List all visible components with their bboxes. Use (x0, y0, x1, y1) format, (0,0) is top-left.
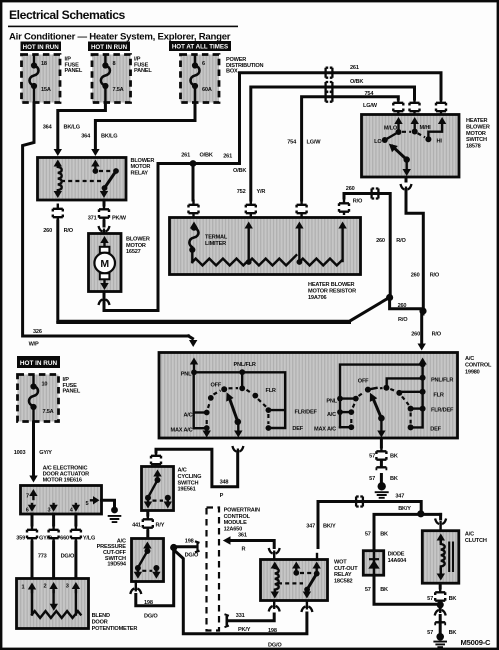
svg-text:M5009-C: M5009-C (461, 638, 492, 647)
svg-text:260: 260 (43, 228, 52, 234)
blower motor 16527 box (89, 234, 122, 292)
svg-text:PNL/FLR: PNL/FLR (234, 362, 256, 368)
node 57 BK splice (437, 601, 444, 608)
fuse panel 3 (power distribution box, fuse 6 60A) (181, 55, 220, 103)
resistor tap arrow pin2 (247, 227, 249, 262)
svg-text:MOTOR RESISTOR: MOTOR RESISTOR (308, 288, 356, 294)
svg-text:R/O: R/O (396, 238, 406, 244)
svg-text:260: 260 (411, 273, 420, 279)
svg-text:PNL/FLR: PNL/FLR (431, 377, 453, 383)
svg-text:M/LO: M/LO (384, 126, 398, 132)
svg-text:A/C: A/C (178, 468, 187, 474)
blower motor relay box (38, 158, 127, 201)
svg-text:DG/O: DG/O (185, 552, 199, 558)
connector horns below motor (99, 298, 110, 305)
inline connector at resistor pin 4 (339, 198, 349, 215)
svg-text:2: 2 (44, 584, 47, 590)
wire node to diode branch (365, 514, 441, 548)
svg-text:1003: 1003 (14, 450, 26, 456)
relay coil (58, 164, 62, 194)
svg-text:19A706: 19A706 (308, 295, 326, 301)
svg-text:LG/W: LG/W (363, 103, 378, 109)
contact PNL right (337, 396, 343, 402)
inline connector 441 (143, 514, 153, 531)
svg-text:16527: 16527 (126, 249, 141, 255)
svg-text:LG/W: LG/W (307, 139, 322, 145)
dashed actuation link coil to contact (61, 180, 101, 182)
svg-text:773: 773 (38, 553, 47, 559)
svg-text:R/O: R/O (432, 332, 442, 338)
wire 348 loop to cycling switch (156, 449, 238, 499)
svg-text:SWITCH: SWITCH (178, 480, 199, 486)
svg-text:BLOWER: BLOWER (466, 124, 490, 130)
heater blower motor switch 18578 box (362, 115, 460, 178)
svg-text:198: 198 (185, 539, 194, 545)
svg-text:PANEL: PANEL (63, 389, 81, 395)
svg-text:O/BK: O/BK (200, 153, 213, 159)
svg-text:261: 261 (223, 154, 232, 160)
fuse F10 7.5A (29, 377, 54, 423)
clutch coil (441, 542, 445, 570)
max a/c output arrow (205, 428, 207, 431)
svg-text:FLR/DEF: FLR/DEF (431, 408, 454, 414)
svg-text:RELAY: RELAY (131, 171, 149, 177)
wire switch output to node B (406, 178, 440, 310)
motor armature M (94, 253, 115, 274)
svg-text:MOTOR 19E616: MOTOR 19E616 (43, 478, 82, 484)
contact A/C stub (194, 411, 207, 413)
svg-text:PK/W: PK/W (112, 216, 127, 222)
svg-text:260: 260 (346, 186, 355, 192)
svg-text:347: 347 (306, 523, 315, 529)
svg-text:BLEND: BLEND (92, 613, 110, 619)
wiper output to bottom (406, 160, 408, 169)
svg-text:660: 660 (60, 535, 69, 541)
svg-text:W/P: W/P (29, 341, 39, 347)
svg-text:19980: 19980 (465, 369, 480, 375)
svg-text:FLR/DEF: FLR/DEF (295, 410, 318, 416)
svg-text:DIODE: DIODE (388, 551, 405, 557)
svg-text:R/Y: R/Y (156, 523, 165, 529)
svg-text:LO: LO (374, 139, 382, 145)
svg-text:7.5A: 7.5A (43, 409, 54, 415)
thermal limiter (189, 228, 198, 248)
svg-text:O/BK: O/BK (350, 79, 363, 85)
wire clutch to ground node (427, 584, 456, 604)
svg-text:OFF: OFF (358, 379, 369, 385)
svg-text:57: 57 (369, 453, 375, 459)
wire 359 GY/R pin6 to potentiometer (16, 514, 52, 577)
svg-text:HOT AT ALL TIMES: HOT AT ALL TIMES (172, 44, 228, 51)
left wiper output (237, 422, 239, 431)
wire 331 PK/Y PCM to WOT relay coil (225, 601, 275, 634)
wot relay contact pin arrow (295, 568, 297, 573)
inline connector to switch pin mid feed (410, 98, 420, 115)
connector pair on row 2 (321, 82, 337, 92)
hot-in-run label bottom (17, 356, 60, 368)
inline connector below clutch (435, 587, 445, 604)
svg-text:HEATER BLOWER: HEATER BLOWER (308, 282, 355, 288)
svg-text:MOTOR: MOTOR (131, 164, 151, 170)
potentiometer pin 1 (31, 588, 33, 592)
connector horns below WOT relay left pin (269, 605, 280, 612)
svg-text:OFF: OFF (211, 383, 222, 389)
wot relay moving contact (307, 574, 317, 590)
potentiometer pin 2 (52, 588, 54, 592)
svg-text:260: 260 (411, 332, 420, 338)
contact MAX A/C right (340, 426, 351, 428)
wire 347 BK/Y WOT relay to clutch node (306, 494, 421, 560)
powertrain control module 12A650 dashed box (207, 508, 220, 631)
svg-text:MAX A/C: MAX A/C (170, 428, 192, 434)
svg-text:BLOWER: BLOWER (131, 158, 155, 164)
svg-text:6: 6 (202, 61, 205, 67)
svg-text:O/BK: O/BK (233, 168, 246, 174)
svg-text:BK: BK (449, 596, 457, 602)
dashed link contacts (300, 572, 313, 574)
hot-in-run label 1 (21, 42, 62, 52)
svg-text:PK/Y: PK/Y (238, 627, 251, 633)
wire 198 DG/O loop splice to pressure switch (136, 550, 174, 620)
a/c pressure cut-off switch 19D594 box (132, 539, 164, 582)
right section feed dot (420, 361, 426, 367)
pressure switch pin arrow (146, 547, 148, 551)
switch pin arrow M/HI (414, 123, 416, 131)
svg-text:261: 261 (350, 65, 359, 71)
contact PNL/FLR on rail (239, 369, 245, 375)
potentiometer element (32, 591, 81, 618)
wire 260 R/O resistor pin4 to main node (344, 186, 406, 295)
svg-text:A/C: A/C (183, 413, 192, 419)
svg-text:19D594: 19D594 (107, 562, 126, 568)
svg-text:DG/O: DG/O (61, 553, 75, 559)
wire 752 Y/R row (row 2) (237, 87, 415, 200)
motor pin arrow bottom (103, 280, 105, 283)
svg-text:6: 6 (26, 507, 29, 513)
svg-text:57: 57 (365, 532, 371, 538)
ground on 347 run (375, 482, 389, 498)
actuator pin 7 (32, 494, 34, 499)
right wiper output (380, 418, 382, 430)
contact LO (382, 137, 388, 143)
svg-text:CONTROL: CONTROL (224, 514, 251, 520)
contact FLR/DEF right (420, 406, 426, 412)
motor brush bottom (100, 273, 110, 279)
connector horns above WOT relay coil (269, 548, 280, 555)
svg-text:CLUTCH: CLUTCH (465, 538, 487, 544)
svg-text:P: P (220, 493, 224, 499)
dashed link pin to pivot (99, 170, 112, 172)
svg-text:M/HI: M/HI (420, 125, 432, 131)
svg-text:364: 364 (81, 134, 91, 140)
wire 260 R/O relay coil return trunk (43, 221, 389, 323)
left section bus PNL vertical (192, 372, 194, 428)
node B 260 splice (419, 307, 426, 314)
connector pair on row 3 (321, 92, 337, 102)
inline connector at resistor pin 1 (189, 200, 199, 217)
arc contact dot left (208, 395, 214, 401)
svg-text:MAX A/C: MAX A/C (314, 426, 336, 432)
svg-text:BK: BK (449, 630, 457, 636)
ground at actuator (108, 507, 122, 522)
svg-text:GY/Y: GY/Y (39, 450, 52, 456)
switch pin arrow HI feed (428, 123, 442, 137)
connector pair on 261 row (321, 68, 337, 78)
contact DEF (266, 425, 272, 431)
svg-text:8: 8 (113, 61, 116, 67)
motor brush top (100, 247, 110, 253)
svg-text:CUT-OUT: CUT-OUT (334, 566, 358, 572)
svg-text:BK/Y: BK/Y (398, 506, 411, 512)
svg-text:60A: 60A (202, 87, 212, 93)
contact FLR right (420, 389, 426, 395)
right wiper (378, 415, 385, 422)
svg-text:18: 18 (41, 61, 47, 67)
svg-text:MOTOR: MOTOR (126, 243, 146, 249)
inline connector to switch pin HI feed (436, 98, 446, 115)
inline connector 57 BK (376, 446, 386, 463)
svg-text:PNL: PNL (181, 372, 192, 378)
svg-text:BK/LG: BK/LG (64, 124, 80, 130)
svg-text:FLR: FLR (433, 392, 443, 398)
svg-text:R: R (242, 546, 246, 552)
svg-text:PANEL: PANEL (65, 68, 83, 74)
actuator pin 6 (31, 504, 33, 507)
svg-text:RELAY: RELAY (334, 572, 352, 578)
svg-text:Y/R: Y/R (257, 189, 266, 195)
actuator pin 3 (52, 504, 54, 507)
contact OFF right (365, 387, 371, 393)
a/c cycling switch 19E561 box (142, 467, 174, 511)
connector horns below splice (435, 609, 446, 616)
svg-text:R/O: R/O (430, 273, 440, 279)
svg-text:14A604: 14A604 (388, 558, 407, 564)
svg-text:CONTROL: CONTROL (465, 363, 492, 369)
svg-text:57: 57 (427, 630, 433, 636)
svg-text:1: 1 (22, 585, 25, 591)
wire 198 DG/O stub terminal (174, 539, 200, 559)
svg-text:DOOR: DOOR (92, 620, 108, 626)
svg-text:HOT IN RUN: HOT IN RUN (23, 44, 60, 51)
svg-text:A/C: A/C (327, 412, 336, 418)
potentiometer pin 3 (75, 588, 77, 592)
svg-text:HOT IN RUN: HOT IN RUN (20, 360, 58, 367)
contact PNL/FLR right (420, 375, 426, 381)
svg-text:7: 7 (26, 493, 29, 499)
svg-text:18578: 18578 (466, 144, 481, 150)
svg-text:10: 10 (42, 381, 48, 387)
svg-text:TERMAL: TERMAL (205, 235, 228, 241)
svg-text:260: 260 (398, 303, 407, 309)
wire 326 W/P fuse1 to A/C control (23, 103, 198, 347)
dashed link M/LO to M/HI (402, 131, 411, 133)
wire 361 R PCM to WOT relay (223, 533, 274, 560)
link M/LO to LO (385, 132, 399, 140)
svg-text:18C582: 18C582 (334, 579, 352, 585)
dashed link (142, 570, 152, 572)
contact MAX A/C stub (194, 427, 207, 429)
resistor element (192, 250, 341, 266)
fuse F18 15A (30, 57, 51, 104)
cycling switch pin arrow top (156, 475, 158, 480)
svg-text:BLOWER: BLOWER (126, 236, 150, 242)
wire 660 Y/LG pin4 to potentiometer (60, 514, 95, 577)
svg-text:BK: BK (380, 532, 388, 538)
relay contact output arrow (103, 188, 105, 192)
fuse panel 2 (I/P fuse panel, fuse 8 7.5A) (92, 55, 131, 103)
wire 198 DG/O splice to WOT relay (175, 551, 307, 649)
left section top rail (194, 372, 285, 428)
inline connector at resistor pin 3 (297, 200, 307, 217)
cycling switch output arrows (147, 498, 149, 502)
dashed link between outputs (153, 500, 164, 502)
fuse panel 1 (I/P fuse panel, fuse 18 15A) (22, 55, 61, 103)
svg-text:SWITCH: SWITCH (466, 137, 487, 143)
svg-text:260: 260 (376, 238, 385, 244)
motor pin arrow top (103, 242, 105, 246)
svg-text:7.5A: 7.5A (113, 87, 124, 93)
svg-text:371: 371 (88, 216, 97, 222)
hot-in-run label 2 (88, 42, 130, 52)
connector horns below pressure switch (130, 587, 141, 594)
inline connector 359 (27, 525, 37, 542)
svg-text:BOX: BOX (226, 69, 238, 75)
wire 371 PK/W relay to blower motor (88, 200, 127, 226)
svg-text:Y/LG: Y/LG (83, 535, 95, 541)
node A 260 splice (386, 294, 393, 301)
a/c electronic door actuator motor 19E616 box (21, 486, 102, 515)
svg-text:754: 754 (287, 139, 297, 145)
svg-text:WOT: WOT (334, 559, 347, 565)
inline connector at resistor pin 2 (246, 200, 256, 217)
wire 260 R/O node B into A/C control (411, 311, 442, 351)
left section PNL feed arrow (193, 364, 195, 372)
wire 773 DG/O pin3 to potentiometer (38, 514, 75, 577)
fuse F6 60A (191, 57, 212, 104)
svg-text:POTENTIOMETER: POTENTIOMETER (92, 626, 138, 632)
wire actuator pin5 to ground (102, 500, 115, 507)
right bus vertical (411, 364, 423, 427)
wot cut-out relay 18C582 box (261, 560, 328, 601)
connector horns below WOT relay right pin (301, 605, 312, 612)
svg-text:FLR: FLR (266, 388, 276, 394)
inline connector above cycling switch (151, 451, 161, 468)
svg-text:261: 261 (181, 153, 190, 159)
svg-text:326: 326 (33, 329, 42, 335)
svg-text:198: 198 (144, 600, 153, 606)
svg-text:348: 348 (220, 479, 229, 485)
svg-text:BK: BK (390, 453, 398, 459)
wire junction down to thermal limiter pin (192, 164, 195, 201)
switch wiper (404, 156, 410, 162)
heater blower motor resistor 19A706 box (170, 218, 361, 275)
blend door potentiometer box (17, 579, 89, 629)
wire 57 BK to ground (427, 605, 456, 636)
svg-text:57: 57 (427, 596, 433, 602)
contact HI (425, 136, 431, 142)
connector horns below A/C control left output (232, 446, 243, 453)
contact A/C right (337, 409, 343, 415)
svg-text:57: 57 (369, 476, 375, 482)
svg-text:57: 57 (365, 587, 371, 593)
svg-text:BK/LG: BK/LG (101, 134, 117, 140)
svg-text:BK/Y: BK/Y (323, 523, 336, 529)
svg-text:HI: HI (437, 138, 443, 144)
relay contact pivot (113, 168, 119, 174)
wire node A to node B (390, 298, 423, 324)
rotary dashes right section (350, 416, 352, 423)
diode 14A604 (363, 551, 383, 576)
ground at clutch return (433, 633, 447, 647)
contact M/LO (396, 129, 402, 135)
left wiper (235, 419, 242, 426)
contact OFF (221, 386, 227, 392)
a/c control 19980 box (159, 353, 458, 439)
svg-text:DG/O: DG/O (268, 642, 282, 648)
svg-text:361: 361 (238, 533, 247, 539)
wire 441 R/Y cycling to pressure switch (132, 511, 165, 538)
svg-text:BK: BK (390, 476, 398, 482)
connector pair on 347 run (352, 497, 368, 507)
actuator pin 4 (75, 504, 77, 507)
svg-text:15A: 15A (41, 87, 51, 93)
svg-text:DEF: DEF (430, 426, 441, 432)
svg-text:331: 331 (236, 613, 245, 619)
svg-text:LIMITER: LIMITER (205, 241, 226, 247)
svg-text:HEATER: HEATER (466, 118, 488, 124)
wire diode to clutch return (365, 575, 436, 604)
contact FLR arc (252, 393, 258, 399)
svg-text:19E561: 19E561 (178, 487, 196, 493)
svg-text:752: 752 (237, 189, 246, 195)
wire 364 BK/LG fuse3 to relay contact (81, 103, 195, 156)
fuse panel 4 (I/P fuse panel, fuse 10 7.5A) (18, 375, 59, 422)
rotary dashes left section (206, 417, 208, 424)
connector pair on 260 link (367, 189, 383, 199)
inline connector below relay coil (53, 204, 63, 221)
svg-text:PANEL: PANEL (134, 68, 152, 74)
potentiometer wiper arrow (52, 591, 54, 604)
wire 754 LG/W row (row 3) (287, 97, 398, 200)
cycling switch blade (148, 480, 158, 498)
svg-text:A/C: A/C (465, 356, 474, 362)
resistor tap arrow pin3 (298, 227, 300, 262)
svg-text:3: 3 (66, 584, 69, 590)
inline connector 660 (71, 525, 81, 542)
wot relay feed pin arrow (316, 568, 318, 574)
fuse F8 7.5A (101, 57, 124, 111)
contact FLR/DEF (266, 407, 272, 413)
svg-text:CYCLING: CYCLING (178, 474, 202, 480)
connector horns below switch (401, 184, 412, 191)
svg-text:HOT IN RUN: HOT IN RUN (91, 44, 128, 51)
clutch plates (449, 542, 453, 573)
resistor tap arrow pin4 (341, 227, 343, 261)
wire motor return loop to 261 junction (104, 164, 190, 311)
wire 261 O/BK junction to power row 1 (181, 153, 246, 174)
node 261 splice (190, 160, 197, 167)
connector horns at motor top (99, 226, 110, 233)
svg-text:364: 364 (43, 124, 53, 130)
svg-text:Electrical Schematics: Electrical Schematics (9, 8, 126, 22)
svg-text:347: 347 (395, 494, 404, 500)
wire 57 BK A/C control to ground (369, 439, 398, 482)
wire 364 BK/LG fuse2 to relay coil (43, 103, 106, 156)
svg-text:BK: BK (380, 587, 388, 593)
dashed actuation link (278, 582, 303, 584)
dashed link M/HI to HI (418, 133, 426, 137)
svg-text:441: 441 (132, 523, 141, 529)
